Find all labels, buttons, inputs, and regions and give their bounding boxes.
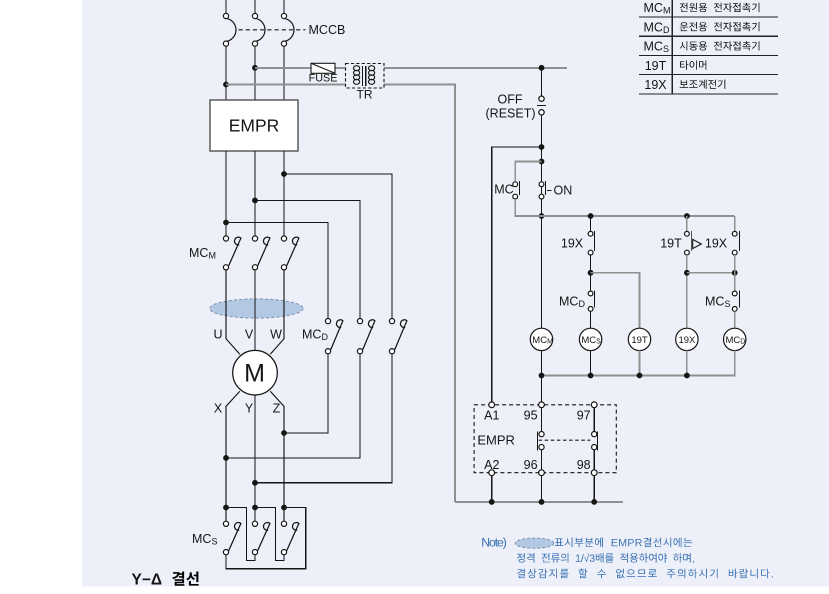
wire control feed lower <box>226 85 455 502</box>
terminal A2 <box>484 458 499 476</box>
wire control main mid <box>539 115 545 328</box>
wire Z phase <box>270 391 287 521</box>
svg-text:Note): Note) <box>481 536 507 550</box>
label V <box>245 327 254 341</box>
label EMPR block <box>477 433 515 448</box>
wire Z to MCD left bottom <box>284 354 328 433</box>
wire X phase <box>223 391 240 521</box>
terminal 97 <box>577 402 597 422</box>
svg-text:95: 95 <box>524 408 538 422</box>
svg-text:19T: 19T <box>645 59 667 73</box>
wire L2 MCCB to EMPR <box>252 46 258 100</box>
svg-text:MC: MC <box>494 183 513 197</box>
contact MCD aux <box>588 291 594 312</box>
wire X delta link <box>226 508 255 561</box>
contactor MCS contacts <box>223 521 299 555</box>
svg-text:19X: 19X <box>705 236 728 250</box>
label TR <box>357 88 373 102</box>
label MCD aux <box>559 294 585 309</box>
terminal A1 <box>484 402 499 422</box>
transformer TR <box>346 64 385 89</box>
wire cross 272 <box>687 255 738 291</box>
wire to MCS coil <box>590 312 592 329</box>
wire L1 MCCB to EMPR <box>223 46 229 100</box>
label W <box>270 327 282 341</box>
wire A2 down <box>491 476 493 502</box>
label MCS <box>192 532 217 547</box>
wire Z delta link <box>226 508 306 569</box>
svg-text:(RESET): (RESET) <box>486 107 536 121</box>
svg-text:Y−Δ: Y−Δ <box>132 572 163 589</box>
wire W phase <box>270 270 284 354</box>
wire L1 top <box>225 0 227 13</box>
svg-text:19X: 19X <box>678 335 696 346</box>
label MC <box>494 183 513 197</box>
contact 95-96 <box>538 408 545 470</box>
coil 19T <box>628 328 650 350</box>
wire Y delta link <box>255 508 284 561</box>
caption Y-delta <box>132 572 199 589</box>
coil 19X <box>676 328 698 350</box>
label X <box>214 401 223 415</box>
label 19X a <box>561 236 584 250</box>
wire to 19T coil <box>591 273 640 328</box>
wire 19X coil feed <box>684 255 690 328</box>
svg-text:19X: 19X <box>561 236 584 250</box>
label FUSE <box>309 73 338 85</box>
wire V phase <box>254 270 256 351</box>
wire tap L2 to MCD mid <box>255 200 360 318</box>
contact 19T <box>685 231 702 255</box>
mechanical link dashed <box>539 439 591 441</box>
label Y <box>245 401 254 415</box>
wire control main upper <box>541 68 543 96</box>
svg-text:19T: 19T <box>631 335 648 346</box>
wire control feed upper <box>255 67 567 69</box>
svg-text:98: 98 <box>577 458 591 472</box>
terminal 98 <box>577 458 597 476</box>
svg-text:X: X <box>214 401 223 415</box>
wire 96 down <box>541 476 543 502</box>
label U <box>213 327 222 341</box>
wire Y to MCD right bottom <box>255 354 392 483</box>
svg-text:A1: A1 <box>484 408 499 422</box>
wire 98 down <box>593 476 595 502</box>
wire coil rail <box>539 351 735 379</box>
svg-text:EMPR: EMPR <box>229 116 280 136</box>
wire 19X branch top <box>590 216 592 231</box>
wire L3 top <box>283 0 285 13</box>
label OFF <box>498 92 523 106</box>
wire MC branch bottom <box>515 199 541 216</box>
label MCS aux <box>705 294 730 309</box>
svg-text:TR: TR <box>357 88 373 102</box>
coil MCM <box>530 328 553 350</box>
legend table grid <box>639 0 778 94</box>
svg-text:M: M <box>244 360 265 388</box>
svg-text:ON: ON <box>554 183 573 197</box>
wire L1 below EMPR <box>223 151 229 236</box>
label ON <box>554 183 573 197</box>
contact 97-98 <box>592 408 598 470</box>
contactor MCM contacts <box>223 236 299 270</box>
label EMPR <box>229 116 280 136</box>
svg-text:W: W <box>270 327 282 341</box>
svg-text:19T: 19T <box>660 236 682 250</box>
contact 19X b <box>732 231 739 255</box>
wire A1 rail <box>492 147 542 402</box>
wire tap L1 to MCD left <box>226 223 328 319</box>
breaker MCCB poles <box>223 13 294 46</box>
svg-text:A2: A2 <box>484 458 499 472</box>
svg-text:Z: Z <box>273 401 281 415</box>
svg-text:97: 97 <box>577 408 591 422</box>
svg-text:96: 96 <box>524 458 538 472</box>
svg-text:FUSE: FUSE <box>309 73 338 85</box>
label 19T <box>660 236 682 250</box>
wire X to MCD mid bottom <box>226 354 360 458</box>
wire 19X right branch <box>734 216 736 231</box>
fuse FUSE <box>311 63 335 73</box>
node control feed tap <box>539 65 545 71</box>
motor M <box>233 350 278 395</box>
contactor MCD contacts <box>325 319 407 354</box>
svg-text:U: U <box>213 327 222 341</box>
label 19X b <box>705 236 728 250</box>
contact MCS aux <box>732 291 739 312</box>
svg-text:EMPR: EMPR <box>477 433 515 448</box>
button OFF RESET <box>537 96 546 115</box>
wire MC branch top <box>515 162 541 182</box>
label RESET <box>486 107 536 121</box>
label MCCB <box>309 23 346 37</box>
wire 19T branch top <box>686 216 688 231</box>
legend table texts <box>644 1 760 92</box>
wire bottom rail <box>455 499 623 505</box>
svg-text:OFF: OFF <box>498 92 523 106</box>
wire rail 216 <box>542 213 735 219</box>
label MCM <box>189 246 216 261</box>
contact 19X a <box>588 231 594 255</box>
svg-text:V: V <box>245 327 254 341</box>
wire L3 below EMPR <box>281 151 287 236</box>
relay EMPR box <box>210 100 298 151</box>
MCCB link dashed <box>239 29 306 31</box>
wire MCM coil column <box>541 351 543 402</box>
coil MCS <box>579 328 601 350</box>
button ON <box>539 181 551 199</box>
wire U phase <box>226 270 240 354</box>
coil MCD <box>724 328 746 350</box>
node 19X a bottom <box>588 255 594 291</box>
wire Y phase <box>252 395 258 521</box>
current transformer ellipse <box>210 299 303 318</box>
label MCD <box>302 328 328 343</box>
svg-text:MCCB: MCCB <box>309 23 346 37</box>
relay EMPR terminal box <box>474 405 616 473</box>
wire L3 MCCB to EMPR <box>283 46 285 100</box>
svg-text:Y: Y <box>245 401 254 415</box>
note text <box>481 536 773 579</box>
label Z <box>273 401 281 415</box>
terminal 95 <box>524 402 545 422</box>
wire to MCD coil <box>734 312 736 329</box>
wire coil bottom stubs <box>591 351 687 376</box>
wire L2 top <box>254 0 256 13</box>
svg-text:19X: 19X <box>644 78 667 92</box>
wire L2 below EMPR <box>252 151 258 236</box>
wire tap L3 to MCD right <box>284 174 392 319</box>
contact MC <box>513 181 520 199</box>
terminal 96 <box>524 458 545 476</box>
